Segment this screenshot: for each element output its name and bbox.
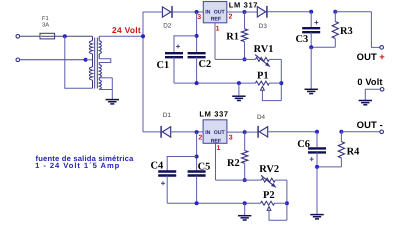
svg-text:D4: D4: [257, 114, 266, 121]
svg-text:3A: 3A: [42, 21, 49, 28]
svg-text:R1: R1: [226, 31, 239, 42]
svg-text:D3: D3: [259, 23, 268, 30]
svg-text:F1: F1: [42, 16, 49, 22]
svg-text:P1: P1: [257, 70, 269, 81]
svg-text:LM 337: LM 337: [199, 109, 228, 118]
svg-text:3: 3: [229, 135, 233, 142]
svg-text:C6: C6: [297, 139, 310, 150]
svg-text:IN: IN: [205, 130, 210, 136]
svg-text:3: 3: [197, 14, 201, 21]
svg-text:C5: C5: [198, 161, 211, 172]
svg-text:+: +: [379, 51, 385, 62]
svg-text:P2: P2: [263, 190, 275, 201]
svg-text:R4: R4: [347, 147, 360, 158]
svg-text:OUT: OUT: [214, 130, 226, 136]
svg-text:D2: D2: [163, 22, 172, 29]
svg-text:D1: D1: [163, 112, 172, 119]
svg-text:R2: R2: [227, 158, 240, 169]
svg-text:1 - 24 Volt 1´5 Amp: 1 - 24 Volt 1´5 Amp: [35, 161, 120, 170]
svg-text:C4: C4: [151, 160, 164, 171]
svg-text:C2: C2: [199, 59, 212, 70]
svg-text:24 Volt: 24 Volt: [112, 25, 141, 35]
svg-text:2: 2: [229, 13, 233, 20]
svg-text:RV2: RV2: [259, 164, 279, 175]
svg-text:OUT: OUT: [214, 10, 226, 16]
svg-text:C3: C3: [296, 34, 309, 45]
svg-text:0 Volt: 0 Volt: [357, 77, 382, 87]
svg-text:IN: IN: [205, 10, 210, 16]
svg-text:OUT: OUT: [357, 51, 377, 62]
svg-text:1: 1: [216, 25, 220, 32]
svg-text:1: 1: [217, 145, 221, 152]
svg-text:R3: R3: [340, 26, 353, 37]
svg-text:C1: C1: [157, 60, 170, 71]
svg-text:REF: REF: [211, 138, 221, 144]
svg-text:OUT -: OUT -: [357, 119, 383, 130]
svg-text:LM 317: LM 317: [229, 0, 258, 9]
svg-text:2: 2: [198, 135, 202, 142]
svg-text:REF: REF: [211, 17, 221, 23]
svg-text:RV1: RV1: [254, 44, 274, 55]
